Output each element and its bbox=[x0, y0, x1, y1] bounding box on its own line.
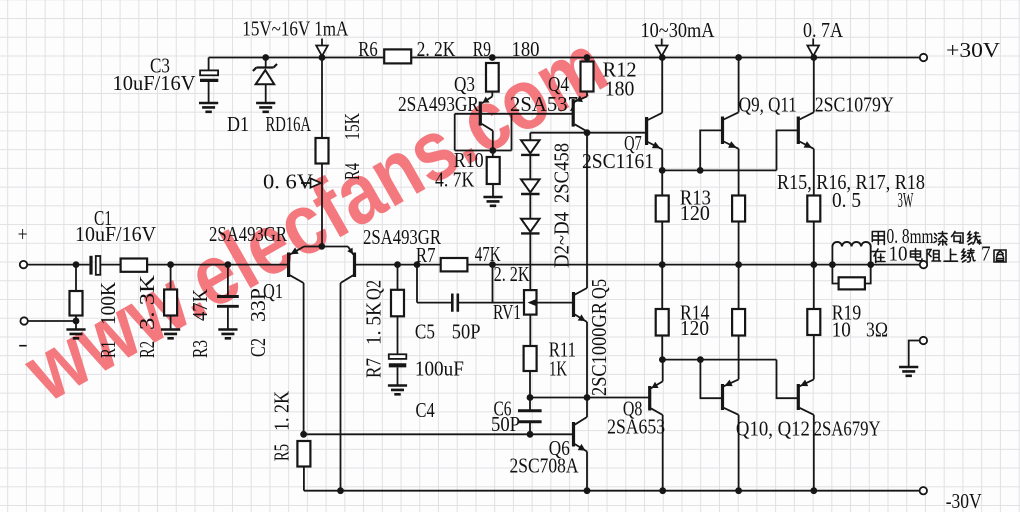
wire D1 column bbox=[265, 58, 267, 104]
ground R10 bbox=[483, 197, 502, 206]
wire Q4 collector stub bbox=[586, 131, 588, 133]
capacitor C1 bbox=[91, 256, 100, 275]
svg-text:3W: 3W bbox=[897, 188, 913, 212]
junction Q8 emitter bbox=[659, 356, 666, 363]
vlabel R1 bbox=[96, 341, 120, 358]
junction minus R1 bbox=[73, 318, 80, 325]
label Q1 type bbox=[209, 222, 287, 246]
vlabel R2 bbox=[135, 341, 159, 358]
svg-text:2SA653: 2SA653 bbox=[607, 415, 665, 439]
label R7 value bbox=[475, 242, 501, 266]
label R7 bbox=[416, 243, 436, 267]
vlabel Q5 bbox=[587, 279, 611, 299]
svg-text:50P: 50P bbox=[491, 412, 520, 436]
cjk shang bbox=[944, 249, 958, 261]
wire Q11 collector bbox=[813, 58, 815, 113]
wire Q7 emitter / R13 bbox=[661, 149, 663, 359]
terminal speaker return bbox=[920, 337, 927, 344]
wire Q7 collector to rail bbox=[661, 58, 663, 113]
capacitor C4 bbox=[389, 354, 407, 365]
trimmer RV1 bbox=[524, 290, 537, 315]
vlabel 1.5K bbox=[362, 302, 386, 345]
label Q7 type bbox=[582, 149, 654, 173]
transistor Q12 bbox=[798, 379, 814, 414]
wire RV1 wiper to Q5 base bbox=[537, 302, 573, 304]
junction L1 right bbox=[867, 261, 874, 268]
wire Q1 collector down bbox=[303, 283, 305, 434]
label R19 bbox=[832, 301, 861, 325]
wire Q10 collector down bbox=[738, 415, 740, 491]
terminal -30V bbox=[920, 487, 927, 494]
wire L1 stubs bbox=[832, 246, 870, 283]
vlabel R5 bbox=[270, 444, 294, 461]
label R12 value bbox=[605, 77, 635, 101]
resistor R10 bbox=[487, 157, 500, 184]
label 0.8mm bbox=[887, 224, 934, 248]
svg-text:3Ω: 3Ω bbox=[866, 318, 888, 342]
junction R5 top bbox=[300, 431, 307, 438]
junction rail Q12 bbox=[810, 487, 817, 494]
label R10 bbox=[454, 148, 484, 172]
svg-text:0. 5: 0. 5 bbox=[832, 188, 861, 212]
label Q3 bbox=[454, 72, 475, 96]
transistor Q9 bbox=[723, 112, 739, 149]
svg-text:R3: R3 bbox=[188, 340, 212, 358]
resistor R9 bbox=[486, 63, 499, 92]
label R13 value bbox=[680, 201, 710, 225]
label R6 value bbox=[417, 37, 456, 61]
svg-text:2SC1161: 2SC1161 bbox=[582, 149, 654, 173]
resistor R11 bbox=[524, 346, 537, 371]
junction rail Q2 col bbox=[337, 487, 344, 494]
junction R11 bottom bbox=[527, 394, 534, 401]
ground R3 bbox=[161, 330, 180, 339]
svg-text:-30V: -30V bbox=[946, 489, 982, 512]
label C1 value bbox=[75, 222, 156, 246]
svg-text:2SC1079Y: 2SC1079Y bbox=[815, 93, 894, 117]
svg-text:R5: R5 bbox=[270, 444, 294, 461]
wire Q5 collector up bbox=[586, 133, 588, 288]
transistor Q7 bbox=[647, 113, 663, 150]
svg-text:33P: 33P bbox=[246, 288, 270, 322]
capacitor C2 bbox=[217, 297, 239, 307]
svg-text:R7: R7 bbox=[362, 358, 386, 378]
cjk quan bbox=[994, 250, 1006, 262]
svg-text:Q10, Q12: Q10, Q12 bbox=[736, 417, 810, 441]
emitter resistor bottom mid bbox=[732, 309, 745, 336]
svg-text:15K: 15K bbox=[340, 113, 364, 140]
vlabel Q2 bbox=[362, 280, 386, 300]
resistor R13 bbox=[656, 196, 669, 222]
label RV1 bbox=[493, 300, 521, 324]
label R15-R18 bbox=[777, 170, 925, 194]
svg-text:Q5: Q5 bbox=[587, 279, 611, 299]
label Q8 bbox=[623, 397, 643, 421]
label C4 value bbox=[415, 357, 464, 381]
svg-text:100K: 100K bbox=[96, 282, 120, 325]
diode D2 bbox=[521, 140, 540, 155]
vlabel R4 bbox=[340, 163, 364, 180]
transistor Q10 bbox=[723, 379, 739, 414]
label 10~30mA bbox=[641, 18, 716, 42]
svg-text:0. 7A: 0. 7A bbox=[803, 18, 844, 42]
svg-text:180: 180 bbox=[512, 37, 540, 61]
vlabel 2SC458 bbox=[550, 143, 574, 203]
wire bias node to diode chain and Q7 base bbox=[530, 133, 645, 141]
wire node397 horizontal bbox=[530, 397, 649, 399]
svg-text:2SC458: 2SC458 bbox=[550, 143, 574, 203]
resistor R5 bbox=[297, 441, 310, 467]
junction output mid bbox=[735, 261, 742, 268]
wire R12 bottom bbox=[586, 92, 588, 97]
junction tail node bbox=[318, 243, 325, 250]
svg-text:180: 180 bbox=[605, 77, 635, 101]
label R15 value bbox=[832, 188, 861, 212]
junction Q10 base bbox=[697, 356, 704, 363]
svg-text:-: - bbox=[18, 332, 28, 356]
junction rail Q7 bbox=[659, 54, 666, 61]
wire R1 column bbox=[75, 265, 77, 330]
resistor R14 bbox=[656, 309, 669, 336]
label R11 bbox=[549, 338, 576, 362]
junction feedback bbox=[489, 261, 496, 268]
vlabel 2SC1000GR bbox=[587, 302, 611, 396]
label Q9 Q11 bbox=[739, 93, 797, 117]
wire C6 stubs bbox=[529, 398, 531, 435]
resistor R6 bbox=[384, 49, 411, 63]
wire Q11 emitter col bbox=[813, 149, 815, 309]
svg-text:10uF/16V: 10uF/16V bbox=[75, 222, 156, 246]
label minus bbox=[18, 332, 28, 356]
svg-text:1K: 1K bbox=[549, 357, 567, 381]
wire RV1 to R11 bbox=[529, 315, 531, 346]
wire C2 column bbox=[227, 265, 229, 330]
junction rail Q8 bbox=[659, 487, 666, 494]
junction rail Q9 bbox=[735, 54, 742, 61]
svg-text:4. 7K: 4. 7K bbox=[435, 168, 474, 192]
junction C5 left bbox=[414, 261, 421, 268]
svg-text:2. 2K: 2. 2K bbox=[417, 37, 456, 61]
watermark www.elecfans.com bbox=[9, 15, 622, 420]
junction rail R4 bbox=[319, 54, 326, 61]
svg-text:2SC708A: 2SC708A bbox=[510, 454, 580, 478]
resistor R19 parallel 10ohm bbox=[839, 277, 865, 289]
svg-text:2SC1000GR: 2SC1000GR bbox=[587, 302, 611, 396]
label R11 value bbox=[549, 357, 567, 381]
svg-text:2SA493GR: 2SA493GR bbox=[209, 222, 287, 246]
label 0.7A bbox=[803, 18, 844, 42]
svg-text:50P: 50P bbox=[452, 320, 481, 344]
cjk rao bbox=[962, 249, 976, 262]
label 15V~16V 1mA bbox=[242, 17, 349, 41]
wire R9 to Q3 bbox=[491, 92, 493, 97]
wire Q1-Q2 emitter node bbox=[304, 246, 348, 248]
junction input R1 bbox=[73, 261, 80, 268]
resistor R7fb bbox=[391, 290, 404, 317]
svg-text:7: 7 bbox=[981, 242, 991, 266]
vlabel 1.2K bbox=[270, 391, 294, 431]
vlabel 3.3K bbox=[135, 275, 159, 330]
label R14 value bbox=[680, 316, 709, 340]
svg-text:3. 3K: 3. 3K bbox=[135, 275, 159, 330]
capacitor C5 bbox=[452, 294, 458, 312]
marker 0.6V arrow bbox=[301, 178, 321, 187]
svg-text:D1: D1 bbox=[227, 112, 249, 136]
cjk zai bbox=[872, 249, 885, 263]
label C3 bbox=[150, 54, 170, 78]
junction Q9 base bbox=[697, 167, 704, 174]
label Q3 type bbox=[398, 92, 479, 116]
wire main line right bbox=[355, 264, 924, 266]
inductor L1 bbox=[832, 242, 870, 247]
label R12 bbox=[603, 58, 637, 82]
diode D4 bbox=[521, 219, 540, 234]
terminal +30V bbox=[920, 54, 927, 61]
top +30V rail bbox=[209, 57, 924, 59]
svg-text:10uF/16V: 10uF/16V bbox=[113, 71, 196, 95]
wire Q3 collector node bbox=[492, 131, 494, 158]
wire R4 column / tail bbox=[321, 58, 323, 247]
label R13 bbox=[680, 186, 711, 210]
label C6 bbox=[494, 397, 512, 421]
wire Q2 collector down bbox=[340, 283, 342, 491]
vlabel D2-D4 bbox=[550, 212, 574, 268]
svg-text:R7: R7 bbox=[416, 243, 436, 267]
cjk xian bbox=[968, 232, 982, 245]
label RV1 value bbox=[494, 262, 530, 286]
terminal output bbox=[920, 261, 927, 268]
wire diode chain segments bbox=[529, 156, 531, 290]
svg-text:10~30mA: 10~30mA bbox=[641, 18, 716, 42]
label 0.6V bbox=[263, 170, 313, 194]
transistor Q5 bbox=[574, 288, 588, 322]
wire R10 bottom bbox=[492, 184, 494, 197]
junction R3 bbox=[167, 261, 174, 268]
cjk qi bbox=[934, 232, 947, 246]
label R19 value bbox=[832, 318, 851, 342]
wire Q10 emitter col bbox=[738, 336, 740, 380]
label Q12 type bbox=[814, 417, 881, 441]
wire Q3 base tie left bbox=[455, 114, 512, 151]
svg-text:C5: C5 bbox=[415, 320, 435, 344]
transistor Q8 bbox=[650, 381, 663, 415]
label Q6 type bbox=[510, 454, 580, 478]
svg-text:120: 120 bbox=[680, 201, 710, 225]
label C6 value bbox=[491, 412, 520, 436]
label Q9 type bbox=[815, 93, 894, 117]
wire Q6 emitter down bbox=[586, 452, 588, 491]
transistor Q3 bbox=[480, 97, 493, 131]
label C5 bbox=[415, 320, 435, 344]
svg-text:100uF: 100uF bbox=[415, 357, 464, 381]
svg-text:RV1: RV1 bbox=[493, 300, 521, 324]
label R9 value bbox=[512, 37, 540, 61]
wire Q8 collector down bbox=[662, 415, 664, 491]
label C4 bbox=[416, 398, 436, 422]
vlabel C2 bbox=[246, 338, 270, 357]
svg-text:10: 10 bbox=[832, 318, 851, 342]
label Q8 type bbox=[607, 415, 665, 439]
label R9 bbox=[473, 37, 491, 61]
ground C4 bbox=[388, 386, 407, 395]
junction rail R9 bbox=[489, 54, 496, 61]
label C3 value bbox=[113, 71, 196, 95]
ground C2 bbox=[218, 330, 237, 339]
terminal input plus bbox=[20, 261, 27, 268]
svg-text:2. 2K: 2. 2K bbox=[494, 262, 530, 286]
label R6 bbox=[358, 37, 377, 61]
svg-text:R1: R1 bbox=[96, 341, 120, 358]
wire input minus bbox=[28, 320, 76, 322]
svg-text:10: 10 bbox=[889, 242, 908, 266]
ground C3 bbox=[199, 103, 218, 112]
current marker 0.7A bbox=[807, 39, 819, 57]
diode D3 bbox=[521, 179, 540, 194]
resistor R2 bbox=[121, 259, 148, 272]
svg-text:R9: R9 bbox=[473, 37, 491, 61]
svg-text:15V~16V 1mA: 15V~16V 1mA bbox=[242, 17, 349, 41]
svg-text:RD16A: RD16A bbox=[266, 112, 312, 136]
svg-text:R4: R4 bbox=[340, 163, 364, 180]
label C5 value bbox=[452, 320, 481, 344]
label Q10 Q12 bbox=[736, 417, 810, 441]
vlabel 15K bbox=[340, 113, 364, 140]
junction Q5 emitter bbox=[584, 394, 591, 401]
svg-text:R6: R6 bbox=[358, 37, 377, 61]
wire C5 links bbox=[417, 265, 524, 303]
junction Q7 emitter bbox=[659, 167, 666, 174]
zener diode D1 bbox=[253, 64, 277, 84]
cjk zu bbox=[927, 250, 941, 263]
svg-text:2SA679Y: 2SA679Y bbox=[814, 417, 881, 441]
ground speaker bbox=[899, 367, 918, 376]
junction rail D1 bbox=[262, 54, 269, 61]
terminal input minus bbox=[20, 317, 27, 324]
junction output right bbox=[810, 261, 817, 268]
cjk dian bbox=[911, 249, 923, 261]
ground R1 bbox=[66, 330, 85, 339]
svg-text:1. 2K: 1. 2K bbox=[270, 391, 294, 431]
junction C2 bbox=[225, 261, 232, 268]
wire R7fb column bbox=[397, 265, 399, 386]
label R14 bbox=[680, 301, 710, 325]
vlabel 100K bbox=[96, 282, 120, 325]
transistor Q4 bbox=[573, 96, 587, 132]
bottom -30V rail bbox=[304, 490, 923, 492]
svg-text:C4: C4 bbox=[416, 398, 436, 422]
transistor Q6 bbox=[574, 417, 588, 452]
cjk bao bbox=[952, 232, 964, 244]
junction rail Q6 bbox=[584, 487, 591, 494]
wire Q12 emitter col bbox=[813, 335, 815, 379]
capacitor C6 bbox=[518, 411, 542, 422]
resistor R1 bbox=[70, 291, 83, 316]
junction rail R12 bbox=[584, 54, 591, 61]
label Q6 bbox=[549, 436, 570, 460]
vlabel 47K bbox=[188, 289, 212, 321]
transistor Q11 bbox=[798, 112, 814, 149]
wire speaker ground bbox=[909, 341, 920, 368]
svg-text:+30V: +30V bbox=[946, 38, 1000, 62]
svg-text:C2: C2 bbox=[246, 338, 270, 357]
wire Q8 emitter up bbox=[662, 360, 664, 382]
label plus bbox=[18, 222, 28, 246]
svg-text:Q2: Q2 bbox=[362, 280, 386, 300]
cjk yong bbox=[872, 232, 884, 245]
junction rail Q10 bbox=[735, 487, 742, 494]
transistor Q2 bbox=[341, 247, 355, 284]
svg-text:D2~D4: D2~D4 bbox=[550, 212, 574, 268]
capacitor C3 bbox=[200, 70, 218, 80]
junction C6 bottom bbox=[527, 431, 534, 438]
label R19 value2 bbox=[866, 318, 888, 342]
wire upper bias line y170 bbox=[662, 130, 797, 170]
junction output R13 bbox=[659, 261, 666, 268]
resistor R3 bbox=[164, 290, 177, 316]
wire R3 column bbox=[170, 265, 172, 330]
svg-text:47K: 47K bbox=[188, 289, 212, 321]
svg-text:120: 120 bbox=[680, 316, 709, 340]
label 7 bbox=[981, 242, 991, 266]
junction L1 left bbox=[829, 261, 836, 268]
vlabel 33P bbox=[246, 288, 270, 322]
junction R7fb bbox=[394, 261, 401, 268]
wire Q12 collector down bbox=[813, 415, 815, 491]
vlabel R7fb bbox=[362, 358, 386, 378]
label Q7 bbox=[624, 131, 642, 155]
label Q2 type bbox=[363, 225, 441, 249]
label D1 bbox=[227, 112, 249, 136]
transistor Q1 bbox=[289, 247, 304, 284]
svg-text:0. 6V: 0. 6V bbox=[263, 170, 313, 194]
junction rail Q11 bbox=[810, 54, 817, 61]
ground D1 bbox=[256, 103, 275, 112]
label R10 value bbox=[435, 168, 474, 192]
label D1 value bbox=[266, 112, 312, 136]
wire lower bias line y359 bbox=[662, 360, 797, 399]
label R15 value2 bbox=[897, 188, 913, 212]
label 10 turns bbox=[889, 242, 908, 266]
emitter resistor top mid bbox=[732, 196, 745, 222]
current marker 1mA bbox=[316, 39, 328, 57]
svg-text:Q9, Q11: Q9, Q11 bbox=[739, 93, 797, 117]
wire Q3-Q4 base line bbox=[455, 113, 573, 115]
vlabel R3 bbox=[188, 340, 212, 358]
label Q1 bbox=[263, 279, 283, 303]
junction bias node bbox=[584, 129, 591, 136]
wire R5 bottom to rail bbox=[303, 467, 305, 491]
resistor R19 bbox=[807, 309, 820, 335]
label C1 bbox=[94, 206, 112, 230]
label Q4 bbox=[548, 72, 569, 96]
label +30V bbox=[946, 38, 1000, 62]
wire Q6 collector up bbox=[586, 398, 588, 418]
current marker 10-30mA bbox=[656, 39, 668, 57]
resistor R7 47K bbox=[441, 258, 468, 271]
svg-text:2SA537: 2SA537 bbox=[510, 92, 578, 116]
emitter resistor top right bbox=[807, 196, 820, 222]
wire R11 bottom bbox=[529, 371, 531, 398]
svg-text:1. 5K: 1. 5K bbox=[362, 302, 386, 345]
resistor R12 bbox=[581, 62, 594, 92]
junction Q3 diode tie bbox=[489, 147, 496, 154]
wire Q5 emitter down bbox=[586, 322, 588, 398]
wire C3 to rail bbox=[208, 58, 210, 104]
svg-text:+: + bbox=[18, 222, 28, 246]
resistor R4 bbox=[316, 138, 329, 164]
svg-text:2SA493GR: 2SA493GR bbox=[398, 92, 479, 116]
wire Q9 collector bbox=[738, 58, 740, 113]
